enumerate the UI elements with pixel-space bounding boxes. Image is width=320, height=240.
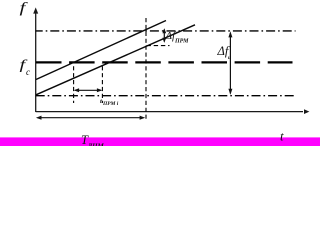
- svg-text:t: t: [100, 98, 102, 105]
- svg-text:ЛЧМ: ЛЧМ: [87, 142, 105, 146]
- svg-text:t: t: [280, 129, 284, 144]
- svg-text:ПРМ: ПРМ: [174, 39, 189, 45]
- svg-text:и: и: [228, 55, 231, 61]
- svg-text:ПРМ i: ПРМ i: [102, 101, 119, 107]
- svg-text:c: c: [26, 67, 30, 77]
